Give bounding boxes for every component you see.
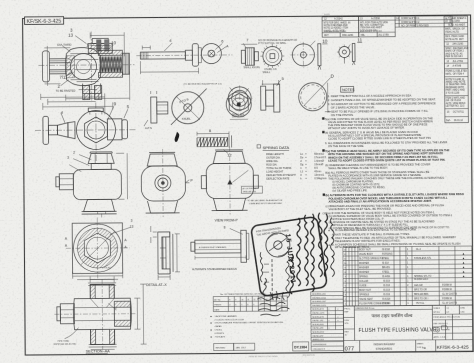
note margin markers: [322, 117, 331, 246]
handwritten vertical script right of date: [260, 213, 335, 297]
washer item 6 (top-centre): [201, 38, 229, 63]
plain washer with crosshair: [290, 41, 316, 68]
bonnet stack: [88, 43, 112, 53]
knurled nut item 11 with pin: [337, 37, 363, 65]
right amendment table: [444, 16, 468, 123]
front view labels 9 5: [114, 101, 130, 109]
bottom stub hatched: [91, 329, 115, 344]
signature table text: [312, 294, 338, 342]
section-aa drawing: [54, 276, 147, 350]
print record boxes: [214, 343, 255, 350]
notes text lines: [322, 93, 465, 249]
securing note under spring data: [247, 199, 283, 205]
inlet flange plate: [42, 51, 49, 82]
split pin item 10: [318, 39, 328, 70]
projection symbol: [435, 326, 448, 332]
spring data table: [257, 144, 327, 181]
main body: [73, 284, 131, 344]
signature column table: [311, 292, 344, 341]
hexagon: [85, 117, 108, 143]
drawing number box top-left: [25, 17, 64, 26]
dims: [73, 271, 123, 278]
revision table text: [324, 13, 430, 37]
spindle item 4 (top-centre): [136, 37, 232, 74]
hex cap nut top view: [226, 87, 251, 119]
revision table strip: [322, 16, 452, 37]
flange handle bar: [43, 116, 49, 144]
alternate standardised design: [191, 225, 249, 262]
body outside view 3: [201, 146, 263, 214]
valve body front view (mid-left): [35, 102, 136, 162]
stem: [48, 125, 57, 135]
detail at-x channel: [151, 226, 180, 280]
retaining ring item D: [299, 74, 335, 113]
bottom outlet: [83, 83, 101, 93]
spring chamber top wall: [98, 50, 122, 55]
dy approval box: [293, 342, 344, 352]
body bulb: [65, 47, 100, 85]
knurled handwheel disc: [171, 89, 207, 125]
microprint below frame: [249, 355, 316, 359]
receipt stamp outline: [251, 216, 328, 296]
flanged disc item 5 front view: [227, 85, 253, 116]
ink blot: [175, 132, 180, 142]
top stub hatched: [90, 284, 114, 298]
leader from pipe thread note: [65, 328, 79, 339]
hexagon section view: [65, 217, 134, 280]
valve assembly sectional view (top-left): [38, 31, 135, 102]
assembly item leaders: [60, 35, 113, 85]
taper cone: [57, 123, 68, 138]
left hex nut: [60, 304, 74, 324]
handwritten notation below stamp: [257, 256, 290, 316]
leaders: [69, 155, 91, 172]
spring coils: [99, 56, 122, 72]
title block: [343, 305, 472, 352]
stamp centre dotted line: [263, 259, 274, 298]
clamp bracket side view: [144, 91, 168, 130]
notes header: [341, 86, 356, 92]
main circle body: [76, 110, 115, 149]
neck: [68, 122, 75, 139]
top bonnet: [88, 108, 103, 112]
parts list table: [343, 246, 472, 306]
extra internals: [49, 58, 72, 76]
centerline: [38, 64, 134, 67]
distribution list: [210, 314, 284, 338]
seat hatch left: [66, 56, 74, 78]
round inspection stamp: [266, 233, 290, 257]
item labels 3 13: [55, 27, 117, 92]
inner bore: [74, 307, 114, 320]
adjuster cap (knurled): [122, 53, 129, 74]
helical spring item 12: [197, 129, 232, 158]
flanged disc item 5 side view: [261, 71, 285, 112]
assembly dimension lines: [42, 32, 130, 110]
gland nut item 7 side view: [241, 37, 260, 69]
right amendment table text: [445, 17, 469, 122]
right arm hatched: [114, 301, 130, 326]
body outside view 2 with boss: [141, 149, 194, 217]
dims: [134, 298, 140, 329]
leader 13: [110, 227, 131, 234]
alterations count table: [213, 293, 287, 311]
title text hindi: [358, 312, 437, 334]
centerlines: [35, 102, 136, 162]
railway standards box: [374, 342, 427, 351]
right stub: [107, 119, 122, 140]
title small cells text: [344, 307, 465, 340]
parts list text: [344, 249, 465, 306]
knurled disc front view: [260, 44, 284, 71]
pipe thread note: [54, 341, 77, 346]
body outside view 1: [56, 150, 128, 218]
centerlines: [54, 279, 137, 350]
